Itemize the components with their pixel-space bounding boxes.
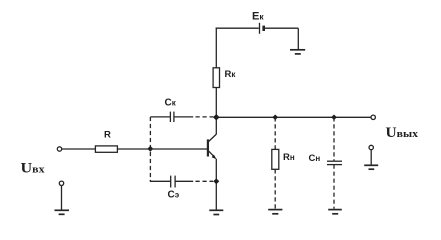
wire Rn bottom dashed — [274, 169, 276, 209]
wire input ground vertical — [61, 186, 63, 210]
wire Rk to collector — [215, 88, 217, 135]
wire Cn bottom dashed — [333, 165, 335, 209]
battery Ek — [260, 23, 264, 34]
wire supply to ground vertical — [297, 28, 299, 49]
wire Ce to emitter dashed — [196, 180, 214, 182]
node Rn tap — [272, 114, 278, 120]
terminal Uout — [371, 115, 375, 119]
wire supply down to Rk — [215, 28, 217, 68]
svg-text:Ек: Ек — [252, 11, 264, 23]
ground (input port) — [55, 210, 70, 214]
wire R to base — [117, 148, 207, 150]
node base tap — [147, 146, 153, 152]
ground (supply) — [290, 50, 305, 54]
wire collector horizontal to output — [216, 116, 370, 118]
wire input to R — [62, 148, 95, 150]
resistor R — [95, 146, 117, 152]
transistor VT1 — [208, 134, 217, 159]
svg-text:Rк: Rк — [225, 69, 237, 80]
svg-text:Rн: Rн — [283, 152, 295, 163]
wire Cn top dashed — [333, 117, 335, 161]
wire Ck left solid — [150, 116, 170, 118]
ground (Rn) — [268, 210, 282, 214]
wire Ck right solid — [174, 116, 193, 118]
terminal output ground circle — [369, 145, 373, 149]
terminal Uin — [57, 147, 61, 151]
resistor Rn — [272, 149, 279, 169]
capacitor Ce — [171, 176, 175, 188]
node emitter tap — [213, 178, 219, 184]
wire Rn top dashed — [274, 117, 276, 149]
svg-text:Сн: Сн — [309, 153, 321, 164]
capacitor Cn — [327, 161, 342, 164]
wire dashed vertical Ck-base-Ce — [149, 117, 151, 181]
terminal input ground circle — [59, 181, 63, 185]
node Cn tap — [331, 114, 337, 120]
svg-text:R: R — [104, 130, 111, 141]
wire Ce right solid — [175, 180, 193, 182]
wire top-right horizontal — [265, 27, 299, 29]
wire output ground vertical — [370, 150, 372, 165]
svg-text:Uвх: Uвх — [21, 160, 46, 176]
wire Ce left solid — [150, 180, 171, 182]
svg-text:Uвых: Uвых — [386, 125, 419, 141]
node collector junction — [213, 114, 220, 121]
ground (emitter) — [209, 210, 223, 214]
ground (Cn) — [328, 210, 342, 214]
wire top-left horizontal — [216, 27, 259, 29]
wire Ck to collector dashed — [196, 116, 214, 118]
svg-text:Сэ: Сэ — [168, 190, 180, 201]
capacitor Ck — [170, 112, 174, 122]
svg-text:Ск: Ск — [165, 97, 177, 108]
resistor Rk — [213, 68, 219, 88]
wire emitter vertical — [215, 159, 217, 210]
ground (output port) — [364, 165, 378, 169]
